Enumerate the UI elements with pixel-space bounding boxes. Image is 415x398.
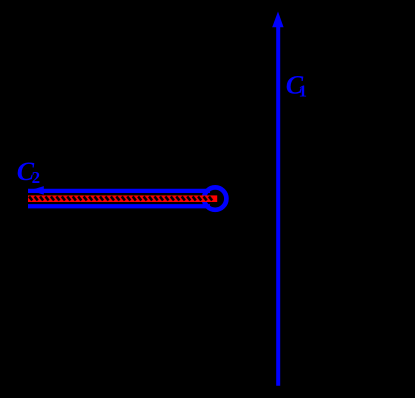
- contour C2 arrowhead (left): [28, 186, 44, 195]
- label C2: [17, 157, 40, 187]
- branch cut solid red tip: [214, 195, 218, 202]
- contour C1 arrowhead (up): [272, 12, 283, 28]
- label C1: [286, 71, 307, 101]
- svg-text:1: 1: [299, 82, 308, 101]
- contour C1 vertical line: [276, 26, 280, 386]
- contour C2 top line (above branch cut): [28, 189, 210, 193]
- svg-text:2: 2: [32, 168, 40, 187]
- contour C2 loop around branch point: [204, 187, 226, 209]
- contour C2 bottom line (below branch cut): [28, 204, 210, 208]
- branch cut (red hatched band): [28, 195, 214, 202]
